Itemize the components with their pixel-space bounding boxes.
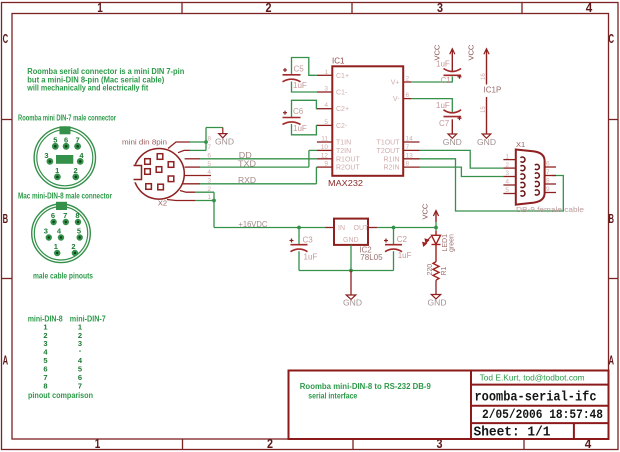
svg-text:7: 7 bbox=[207, 144, 211, 151]
svg-text:3: 3 bbox=[505, 170, 509, 177]
svg-text:7: 7 bbox=[78, 382, 82, 391]
svg-text:DB-9 female cable: DB-9 female cable bbox=[516, 205, 584, 214]
svg-text:C1: C1 bbox=[441, 76, 452, 85]
svg-text:C3: C3 bbox=[303, 236, 314, 245]
svg-text:10: 10 bbox=[321, 144, 329, 151]
svg-text:X2: X2 bbox=[158, 199, 167, 208]
svg-text:A: A bbox=[608, 353, 614, 368]
svg-text:7: 7 bbox=[76, 136, 80, 145]
svg-text:2: 2 bbox=[267, 436, 273, 451]
svg-text:VCC: VCC bbox=[433, 44, 442, 60]
svg-text:C1-: C1- bbox=[336, 90, 348, 97]
svg-text:11: 11 bbox=[321, 136, 328, 143]
svg-text:13: 13 bbox=[406, 152, 414, 159]
svg-text:X1: X1 bbox=[516, 140, 525, 149]
svg-text:V-: V- bbox=[393, 96, 400, 103]
svg-text:Roomba mini-DIN-8 to RS-232 DB: Roomba mini-DIN-8 to RS-232 DB-9 bbox=[300, 382, 432, 391]
svg-text:1uF: 1uF bbox=[436, 101, 450, 110]
svg-text:1uF: 1uF bbox=[293, 124, 307, 133]
svg-text:15: 15 bbox=[481, 106, 487, 113]
svg-text:Sheet: 1/1: Sheet: 1/1 bbox=[474, 426, 551, 441]
svg-text:B: B bbox=[608, 211, 614, 226]
svg-text:T2OUT: T2OUT bbox=[377, 148, 401, 155]
svg-text:GND: GND bbox=[428, 298, 447, 307]
svg-text:7: 7 bbox=[63, 211, 67, 220]
svg-text:1uF: 1uF bbox=[293, 81, 307, 90]
svg-text:1uF: 1uF bbox=[436, 60, 450, 69]
svg-text:16: 16 bbox=[481, 73, 487, 80]
svg-text:Tod E.Kurt, tod@todbot.com: Tod E.Kurt, tod@todbot.com bbox=[480, 374, 585, 383]
svg-text:IC1: IC1 bbox=[332, 57, 345, 66]
svg-text:R1IN: R1IN bbox=[384, 156, 400, 163]
svg-text:green: green bbox=[449, 234, 456, 252]
svg-text:1: 1 bbox=[97, 0, 103, 15]
svg-text:T1OUT: T1OUT bbox=[377, 140, 401, 147]
svg-text:mini din 8pin: mini din 8pin bbox=[122, 137, 167, 146]
svg-text:C2+: C2+ bbox=[336, 106, 349, 113]
svg-text:12: 12 bbox=[321, 152, 329, 159]
svg-text:4: 4 bbox=[586, 0, 593, 15]
svg-text:5: 5 bbox=[324, 119, 328, 126]
svg-text:+16VDC: +16VDC bbox=[238, 220, 267, 229]
svg-text:IC1P: IC1P bbox=[484, 86, 502, 95]
svg-text:OUT: OUT bbox=[354, 225, 370, 232]
svg-text:R1: R1 bbox=[441, 266, 448, 275]
svg-text:6: 6 bbox=[64, 136, 68, 145]
svg-text:8: 8 bbox=[207, 136, 211, 143]
svg-text:T1IN: T1IN bbox=[336, 140, 351, 147]
svg-text:mini-DIN-7: mini-DIN-7 bbox=[70, 315, 106, 324]
svg-text:1: 1 bbox=[505, 153, 509, 160]
svg-text:9: 9 bbox=[324, 161, 328, 168]
svg-text:C5: C5 bbox=[294, 65, 305, 74]
svg-text:8: 8 bbox=[43, 382, 47, 391]
svg-text:RXD: RXD bbox=[238, 176, 256, 185]
svg-text:Roomba mini DIN-7 male connect: Roomba mini DIN-7 male connector bbox=[18, 114, 116, 123]
svg-text:C: C bbox=[608, 31, 614, 46]
svg-text:B: B bbox=[3, 211, 9, 226]
svg-text:GND: GND bbox=[477, 138, 496, 147]
svg-text:14: 14 bbox=[406, 136, 414, 143]
svg-text:C1+: C1+ bbox=[336, 73, 349, 80]
svg-text:GND: GND bbox=[343, 237, 359, 244]
svg-text:VCC: VCC bbox=[467, 44, 476, 60]
svg-text:1: 1 bbox=[55, 166, 59, 175]
svg-text:C6: C6 bbox=[293, 107, 304, 116]
svg-text:2: 2 bbox=[71, 242, 75, 251]
svg-text:V+: V+ bbox=[391, 80, 400, 87]
svg-text:C7: C7 bbox=[439, 119, 450, 128]
svg-text:8: 8 bbox=[75, 211, 79, 220]
svg-text:3: 3 bbox=[324, 86, 328, 93]
svg-text:R2OUT: R2OUT bbox=[336, 165, 360, 172]
svg-text:C: C bbox=[3, 31, 9, 46]
svg-text:C2: C2 bbox=[397, 235, 408, 244]
svg-text:3: 3 bbox=[437, 0, 443, 15]
svg-text:1uF: 1uF bbox=[398, 251, 412, 260]
svg-text:2/05/2006 18:57:48: 2/05/2006 18:57:48 bbox=[482, 407, 603, 422]
svg-text:6: 6 bbox=[51, 211, 55, 220]
svg-text:9: 9 bbox=[546, 186, 550, 193]
svg-text:GND: GND bbox=[343, 298, 362, 307]
svg-text:roomba-serial-ifc: roomba-serial-ifc bbox=[475, 391, 597, 406]
svg-text:2: 2 bbox=[406, 76, 410, 83]
svg-text:4: 4 bbox=[324, 102, 328, 109]
svg-text:1: 1 bbox=[95, 436, 101, 451]
svg-text:VCC: VCC bbox=[421, 203, 430, 219]
svg-text:Mac mini-DIN-8 male connector: Mac mini-DIN-8 male connector bbox=[18, 191, 112, 200]
svg-text:MAX232: MAX232 bbox=[328, 178, 363, 188]
svg-text:3: 3 bbox=[44, 151, 48, 160]
svg-text:220: 220 bbox=[427, 264, 434, 276]
svg-text:1uF: 1uF bbox=[304, 253, 318, 262]
svg-text:R2IN: R2IN bbox=[384, 165, 400, 172]
svg-text:2: 2 bbox=[74, 166, 78, 175]
svg-text:4: 4 bbox=[505, 179, 509, 186]
svg-text:A: A bbox=[3, 353, 9, 368]
svg-text:pinout comparison: pinout comparison bbox=[28, 391, 93, 400]
svg-text:R1OUT: R1OUT bbox=[336, 156, 360, 163]
svg-text:6: 6 bbox=[546, 161, 550, 168]
svg-text:4: 4 bbox=[207, 169, 211, 176]
svg-text:8: 8 bbox=[406, 161, 410, 168]
svg-text:2: 2 bbox=[266, 0, 272, 15]
svg-text:TXD: TXD bbox=[238, 159, 256, 168]
svg-text:78L05: 78L05 bbox=[360, 253, 383, 262]
svg-text:will mechanically and electric: will mechanically and electrically fit bbox=[26, 84, 148, 93]
svg-text:2: 2 bbox=[505, 162, 509, 169]
svg-text:IN: IN bbox=[338, 225, 345, 232]
svg-text:C2-: C2- bbox=[336, 123, 348, 130]
svg-text:8: 8 bbox=[546, 178, 550, 185]
svg-text:6: 6 bbox=[406, 92, 410, 99]
svg-text:5: 5 bbox=[77, 226, 81, 235]
svg-text:7: 7 bbox=[546, 169, 550, 176]
svg-text:T2IN: T2IN bbox=[336, 148, 351, 155]
svg-text:1: 1 bbox=[54, 242, 58, 251]
svg-text:5: 5 bbox=[505, 187, 509, 194]
svg-text:3: 3 bbox=[44, 226, 48, 235]
svg-text:5: 5 bbox=[53, 136, 57, 145]
svg-text:GND: GND bbox=[443, 138, 462, 147]
svg-text:GND: GND bbox=[215, 138, 234, 147]
svg-text:7: 7 bbox=[406, 144, 410, 151]
svg-text:male cable pinouts: male cable pinouts bbox=[33, 272, 93, 281]
svg-text:1: 1 bbox=[324, 69, 328, 76]
svg-text:serial interface: serial interface bbox=[308, 391, 357, 400]
